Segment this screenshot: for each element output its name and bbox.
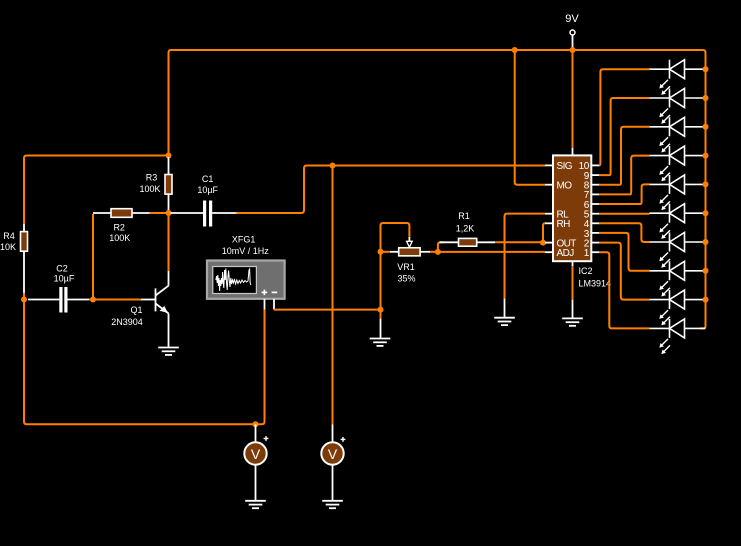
wire VR1 right lead to node (430, 251, 436, 253)
resistor R1 (459, 238, 477, 246)
VR1 wiper arrow (407, 241, 413, 247)
junction node A (R4 wire / R3 top / top rail) (166, 153, 172, 159)
svg-text:C1: C1 (202, 174, 214, 184)
junction VR1 right / R1 / ADJ node (435, 249, 441, 255)
svg-text:10µF: 10µF (197, 185, 218, 195)
wire top 9V rail from R3 node to LED anode rail (169, 50, 706, 328)
wire 9V to IC2 V+ (vertical) (572, 50, 574, 148)
resistor VR1 body (399, 248, 420, 256)
wire IC2 V+ top pin stub (component lead) (572, 148, 574, 155)
wire VR1 left node to lead (381, 251, 391, 253)
wire XFG1 - to VR1 bottom node (274, 309, 381, 311)
junction anode rail / LED D9 (703, 297, 709, 303)
LED D5 (650, 175, 706, 194)
V2 polarity + (341, 437, 346, 442)
svg-text:R2: R2 (113, 222, 125, 232)
junction anode rail / LED D1 (703, 66, 709, 72)
junction anode rail / LED D7 (703, 239, 709, 245)
IC2 pin OUT stub (545, 242, 553, 244)
resistor R3 (165, 175, 172, 195)
LED D2 emission arrows (659, 109, 670, 124)
IC2 pin RH stub (545, 222, 553, 224)
wire node B down to Q1 collector (168, 213, 170, 271)
junction anode rail / LED D3 (703, 124, 709, 130)
wire node to ground stub (380, 310, 382, 319)
svg-text:RH: RH (557, 219, 571, 230)
junction OUT / RH node (540, 240, 546, 246)
wire R2 right lead (component lead) (132, 212, 150, 214)
junction bottom loop / voltmeter V1 tap (253, 421, 259, 427)
wire IC2 V- to ground wire (572, 266, 574, 300)
svg-text:R4: R4 (3, 231, 15, 241)
LED D8 (650, 261, 706, 280)
node 9V supply terminal (570, 30, 575, 35)
svg-text:Q1: Q1 (130, 305, 142, 315)
IC2 pin SIG stub (545, 164, 553, 166)
capacitor C2 (59, 287, 62, 313)
svg-text:100K: 100K (139, 184, 160, 194)
ground under IC2 (562, 318, 583, 325)
wire R3 top lead (component lead) (168, 157, 170, 175)
svg-text:ADJ: ADJ (557, 248, 575, 259)
IC2 pin 1 stub (591, 251, 599, 253)
ground under V2 (322, 501, 343, 508)
junction node B (R3 / R2 / C1 / Q1 collector) (166, 210, 172, 216)
signal generator XFG1 (207, 261, 285, 299)
wire XFG1 + terminal lead (component lead) (264, 299, 266, 310)
wire IC2 pin 5 to LED6 (599, 213, 650, 215)
wire IC2 pin 4 to LED7 (599, 223, 650, 242)
wire C2 to node C (89, 299, 91, 301)
wire IC2 pin 7 to LED4 (599, 156, 650, 195)
wire IC2 pin 6 to LED5 (599, 184, 650, 204)
junction anode rail / LED D5 (703, 181, 709, 187)
wire node to IC2 ADJ wire (438, 251, 545, 253)
transistor Q1 2N3904 (141, 271, 169, 348)
svg-text:35%: 35% (397, 273, 415, 283)
svg-text:10mV / 1Hz: 10mV / 1Hz (222, 246, 270, 256)
wire VR1 left lead (component lead) (390, 251, 399, 253)
IC2 pin 7 stub (591, 193, 599, 195)
svg-text:R1: R1 (458, 211, 470, 221)
svg-text:LM3914: LM3914 (579, 278, 612, 288)
LED D6 (650, 204, 706, 223)
wire IC2 pin 10 to LED1 (599, 69, 650, 165)
svg-text:C2: C2 (56, 264, 68, 274)
wire node A horizontal to R4 top (24, 156, 169, 225)
junction node C (R2 / C2 / Q1 base) (90, 297, 96, 303)
LED D9 emission arrows (659, 310, 670, 325)
wire XFG1 + to bottom loop back to node C rail (24, 300, 265, 425)
IC2 pin 3 stub (591, 232, 599, 234)
wire V1 bottom lead (component lead) (255, 465, 257, 501)
IC2 pin RL stub (545, 213, 553, 215)
resistor R4 (21, 232, 28, 252)
wire R1 left corner to VR1 node (438, 242, 443, 252)
wire IC2 ground lead (component lead) (572, 300, 574, 319)
IC2 pin 2 stub (591, 242, 599, 244)
svg-text:10µF: 10µF (54, 273, 75, 283)
wire R4 to C2 node (23, 293, 25, 300)
wire XFG1 - terminal lead (component lead) (273, 299, 275, 310)
V1 polarity + (264, 436, 269, 441)
op-amp/IC U1: IC2 LM3914 bar display driver (553, 155, 591, 261)
wire V2 bottom lead (component lead) (332, 465, 334, 501)
wire IC2 pin 8 to LED3 (599, 127, 650, 185)
IC2 pin MO stub (545, 184, 553, 186)
wire OUT node to pin stub (543, 242, 545, 244)
IC2 pin ADJ stub (545, 251, 553, 253)
LED D8 emission arrows (659, 281, 670, 296)
LED D5 emission arrows (659, 195, 670, 210)
wire RL ground lead (component lead) (504, 299, 506, 318)
wire C1 to IC2 SIG (237, 166, 546, 214)
LED D1 emission arrows (659, 80, 670, 95)
wire C2 left lead (component lead) (28, 299, 59, 301)
resistor R2 (111, 209, 132, 218)
wire IC2 RL to ground (505, 214, 546, 299)
svg-text:XFG1: XFG1 (232, 234, 256, 244)
IC2 pin 10 stub (591, 164, 599, 166)
wire R4 bottom lead (component lead) (23, 251, 25, 293)
wire VR1 wiper stub (component lead) (408, 237, 410, 241)
svg-text:R3: R3 (146, 173, 158, 183)
wire V1 top lead (component lead) (255, 424, 257, 442)
wire node C to Q1 base (93, 299, 141, 301)
junction anode rail / LED D8 (703, 268, 709, 274)
wire IC2 pin 2 to LED9 (599, 243, 650, 300)
junction XFG- / VR1 / ground node (378, 307, 384, 313)
wire OUT node up to RH pin (543, 223, 545, 242)
IC2 pin 4 stub (591, 222, 599, 224)
LED D2 (650, 89, 706, 108)
XFG1 polarity marks + - (262, 290, 278, 296)
wire R3 bottom lead (component lead) (168, 194, 170, 211)
svg-text:IC2: IC2 (579, 266, 593, 276)
svg-text:100K: 100K (109, 233, 130, 243)
capacitor C1 (203, 201, 206, 227)
wire SIG node down to voltmeter V2 (332, 166, 334, 425)
junction 9V rail / MO drop (512, 47, 518, 53)
wire VR1 right lead (component lead) (420, 251, 430, 253)
IC2 pin 5 stub (591, 213, 599, 215)
wire C1 right lead (component lead) (212, 212, 236, 214)
LED D7 emission arrows (659, 253, 670, 268)
wire V2 top lead (component lead) (332, 425, 334, 443)
junction VR1 left / wiper / down node (378, 249, 384, 255)
wire R1 right lead (component lead) (477, 241, 495, 243)
junction SIG node / V2 tap (330, 163, 336, 169)
wire R2 left down to base node (92, 214, 94, 300)
wire R4 top lead (component lead) (23, 224, 25, 232)
svg-text:9V: 9V (565, 13, 579, 25)
LED D10 emission arrows (659, 339, 670, 354)
junction 9V rail / IC V+ drop (570, 47, 576, 53)
wire R1 left lead (component lead) (440, 241, 459, 243)
wire R2 to node B (150, 212, 167, 214)
wire 9V rail down to IC2 MO pin (515, 50, 545, 185)
XFG1 noise waveform (216, 269, 251, 292)
wire VR1 node down to ground node (380, 252, 382, 310)
LED D10 (650, 319, 706, 338)
junction R4 / C2 / bottom loop node (21, 297, 27, 303)
svg-text:1,2K: 1,2K (456, 224, 475, 234)
wire ground lead (component lead) (380, 319, 382, 339)
svg-text:2N3904: 2N3904 (111, 317, 143, 327)
wire VR1 wiper loop to left terminal (381, 223, 410, 252)
wire IC2 pin 1 to LED10 (599, 252, 650, 328)
wire IC2 pin 3 to LED8 (599, 233, 650, 271)
svg-text:VR1: VR1 (397, 262, 415, 272)
IC2 pin 6 stub (591, 203, 599, 205)
svg-text:V: V (328, 446, 338, 462)
LED D4 (650, 146, 706, 165)
ground under V1 (245, 501, 266, 508)
ground under Q1 emitter (158, 348, 179, 355)
junction anode rail / LED D2 (703, 95, 709, 101)
ground under RL wire (494, 318, 515, 325)
LED D9 (650, 290, 706, 309)
LED D3 (650, 117, 706, 136)
IC2 pin 9 stub (591, 174, 599, 176)
LED D3 emission arrows (659, 137, 670, 152)
svg-text:10K: 10K (0, 242, 16, 252)
wire R2 left lead (component lead) (93, 212, 111, 214)
wire C1 left lead (component lead) (171, 212, 204, 214)
IC2 pin 8 stub (591, 184, 599, 186)
wire IC2 V- stub (component lead) (572, 261, 574, 266)
junction anode rail / LED D6 (703, 210, 709, 216)
wire IC2 pin 9 to LED2 (599, 98, 650, 175)
junction anode rail / LED D4 (703, 153, 709, 159)
svg-text:V: V (251, 446, 261, 462)
wire C2 right lead (component lead) (68, 299, 90, 301)
wire R1 to OUT node (495, 241, 543, 243)
LED D6 emission arrows (659, 224, 670, 239)
LED D4 emission arrows (659, 166, 670, 181)
ground under XFG1/VR1 node (370, 339, 391, 346)
svg-text:SIG: SIG (557, 161, 573, 172)
LED D7 (650, 233, 706, 252)
LED D1 (650, 60, 706, 79)
svg-text:MO: MO (557, 181, 573, 192)
